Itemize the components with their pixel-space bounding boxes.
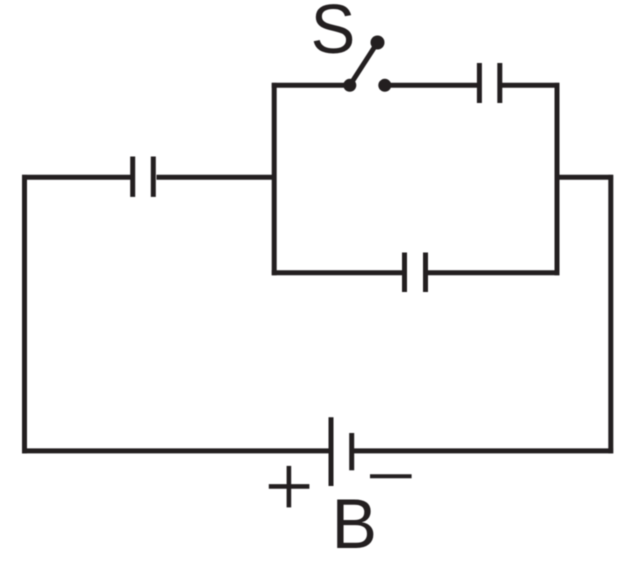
capacitor C3 (bottom branch) bbox=[405, 253, 426, 293]
label - (battery negative) bbox=[370, 474, 412, 478]
switch S lever arm bbox=[350, 43, 378, 86]
wire: outer right vertical bbox=[608, 175, 613, 454]
battery B negative (short) plate bbox=[349, 433, 354, 470]
switch open-end dot bbox=[371, 36, 385, 50]
battery B positive (long) plate bbox=[329, 417, 334, 486]
wire: top branch, left corner to switch pivot bbox=[272, 83, 350, 88]
capacitor C1 (series, top-left wire) bbox=[133, 157, 154, 197]
label + (battery positive) bbox=[269, 466, 310, 508]
wire: top main horizontal, left corner to C1 bbox=[22, 175, 131, 180]
capacitor C2 (top branch) bbox=[479, 63, 499, 103]
wire: right main horizontal, box to outer right bbox=[555, 175, 614, 180]
wire: bottom branch, left corner to C3 bbox=[272, 270, 403, 275]
wire: battery - plate to bottom right corner bbox=[354, 448, 613, 453]
wire: inner box left edge vertical bbox=[272, 83, 277, 275]
wire: bottom horizontal, left corner to battery + plate bbox=[22, 448, 329, 453]
wire: C3 to inner box right corner bbox=[427, 270, 559, 275]
switch fixed contact dot bbox=[378, 79, 391, 92]
wire: C2 to inner box right corner bbox=[502, 83, 559, 88]
wire: C1 to inner box left edge bbox=[157, 175, 277, 180]
wire: outer left vertical bbox=[22, 175, 27, 454]
svg-text:B: B bbox=[332, 484, 377, 563]
wire: inner box right edge vertical bbox=[555, 83, 560, 275]
wire: top branch, switch contact to C2 bbox=[384, 83, 478, 88]
svg-text:S: S bbox=[311, 0, 356, 68]
switch pivot junction dot bbox=[343, 79, 356, 92]
